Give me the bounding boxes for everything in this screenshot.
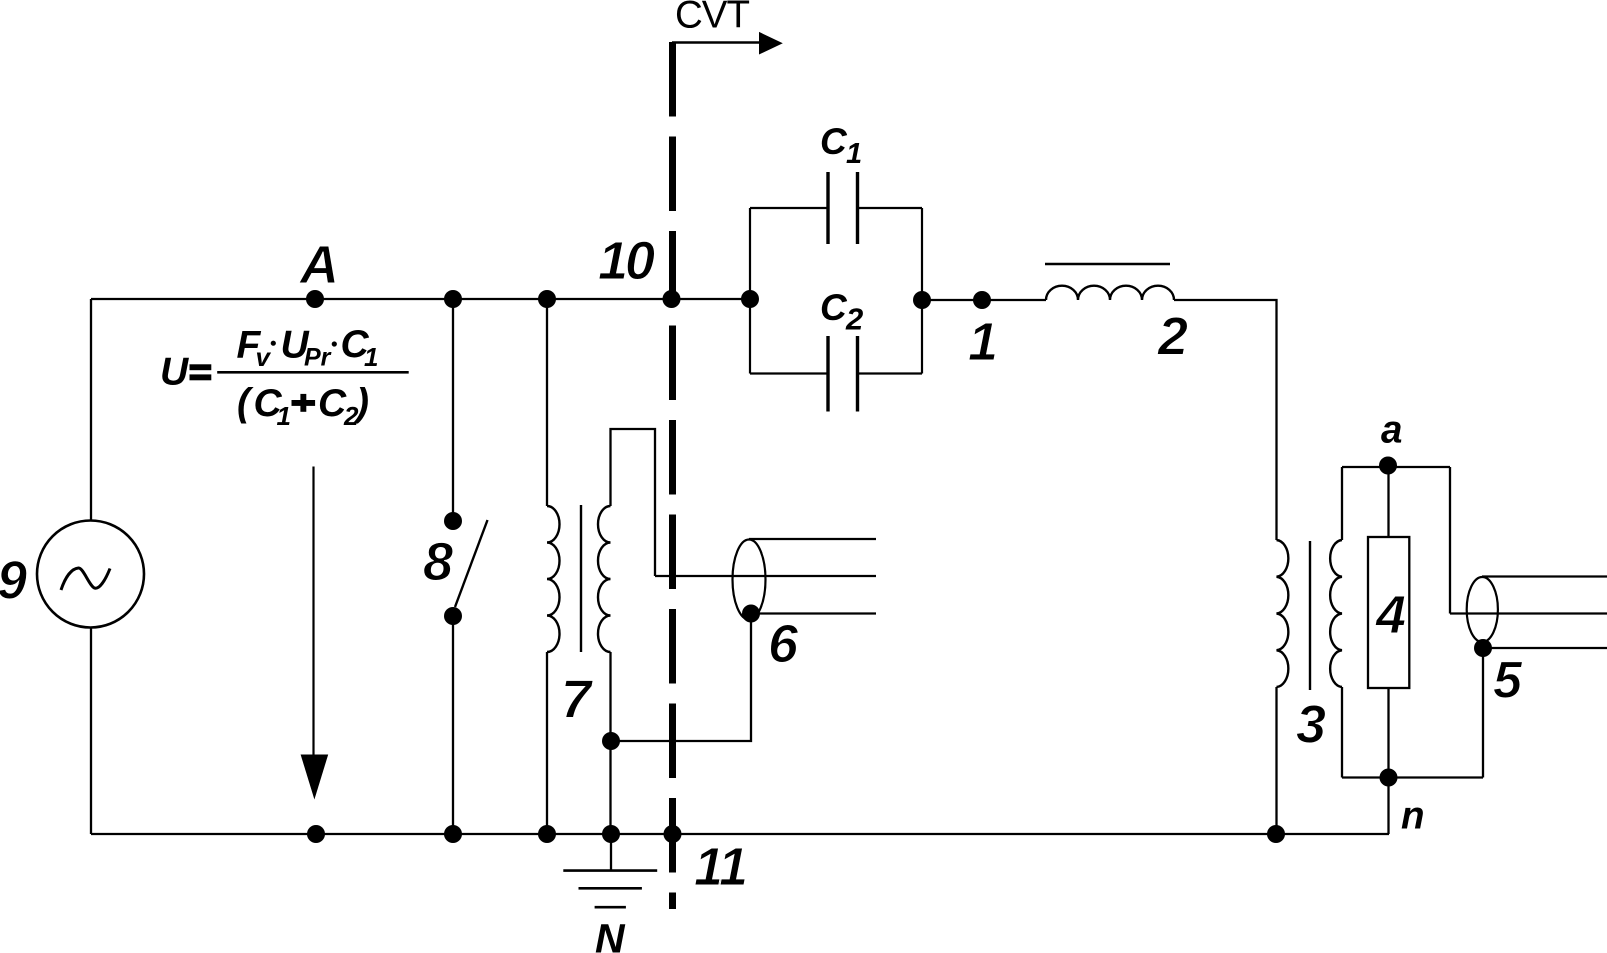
svg-text:2: 2 xyxy=(1157,307,1188,367)
inductor 2 humps xyxy=(1046,286,1174,300)
transformer 7 core xyxy=(580,505,582,652)
transformer 3 primary winding xyxy=(1277,540,1289,687)
node capbox right dot xyxy=(913,291,931,309)
bottom bus dot switch xyxy=(444,825,462,843)
svg-text:C: C xyxy=(318,382,347,425)
wire transformer7 secondary top link xyxy=(611,429,656,576)
transformer 7 primary winding xyxy=(547,506,560,652)
svg-text:4: 4 xyxy=(1375,585,1406,645)
voltage arrow below formula xyxy=(312,467,314,758)
capacitor C1 plates xyxy=(828,172,858,244)
wire node n drop to bottom bus xyxy=(1387,778,1389,835)
svg-text:C: C xyxy=(820,287,848,328)
svg-text:CVT: CVT xyxy=(675,0,749,37)
wire ground stem xyxy=(610,834,612,871)
wire cable5 bottom conductor xyxy=(1483,647,1607,649)
formula fraction bar xyxy=(217,371,409,374)
wire cable5 middle conductor xyxy=(1450,612,1607,614)
wire transformer7 secondary bottom to ground junction xyxy=(609,652,611,834)
wire left drop from bus to source xyxy=(90,299,92,521)
svg-text:C: C xyxy=(820,121,848,162)
node 1 dot xyxy=(973,291,991,309)
svg-text:Pr: Pr xyxy=(304,344,332,372)
switch 8 lower contact dot xyxy=(444,607,462,625)
wire transformer3 secondary bottom xyxy=(1341,687,1343,778)
wire top bus from source to capacitor box xyxy=(91,298,750,300)
source 9 sine symbol xyxy=(61,568,110,590)
node 10 dot xyxy=(663,290,681,308)
wire loop right vertical xyxy=(1449,467,1451,614)
source 9 circle xyxy=(37,521,144,628)
svg-text:1: 1 xyxy=(364,342,378,372)
node capbox left dot xyxy=(741,290,759,308)
wire from source bottom to bottom bus xyxy=(90,628,92,835)
svg-text:n: n xyxy=(1401,795,1425,838)
capacitor C2 plates xyxy=(828,336,858,412)
wire cable6 top conductor xyxy=(749,538,876,540)
inductor 2 bar xyxy=(1045,263,1170,266)
node A dot xyxy=(306,290,324,308)
wire cable6 bottom conductor xyxy=(751,612,876,614)
CVT arrow head xyxy=(759,32,783,55)
ground bar 1 xyxy=(563,869,657,872)
wire inductor2 to transformer3 xyxy=(1174,300,1277,540)
svg-text:8: 8 xyxy=(423,532,453,592)
svg-text:2: 2 xyxy=(845,302,863,337)
node 11 dot xyxy=(664,825,682,843)
bottom bus dot transformer7 primary xyxy=(538,825,556,843)
svg-text:11: 11 xyxy=(694,837,746,897)
wire loop top edge a xyxy=(1342,466,1450,468)
svg-text:1: 1 xyxy=(277,401,291,431)
svg-text:3: 3 xyxy=(1296,695,1326,755)
svg-text:N: N xyxy=(595,916,626,953)
transformer 7 secondary winding xyxy=(598,506,611,652)
node n dot xyxy=(1380,769,1398,787)
svg-text:5: 5 xyxy=(1493,652,1523,710)
capacitor box edges xyxy=(750,208,922,374)
node transformer7 junction dot xyxy=(538,290,556,308)
wire transformer7 primary to bottom bus xyxy=(546,652,548,834)
svg-text:6: 6 xyxy=(768,614,799,674)
wire transformer3 secondary top xyxy=(1341,467,1343,540)
ground bar 3 xyxy=(595,906,626,909)
wire switch lower drop xyxy=(452,616,454,834)
node a dot xyxy=(1379,457,1397,475)
node switch-top junction dot xyxy=(444,290,462,308)
wire node6 drop to junction xyxy=(611,614,751,742)
svg-text:A: A xyxy=(298,235,339,295)
CVT boundary dashed line xyxy=(669,42,676,909)
transformer 3 secondary winding xyxy=(1330,540,1342,687)
node 6 dot xyxy=(742,605,760,623)
wire bottom bus xyxy=(91,833,1389,835)
switch 8 upper contact dot xyxy=(444,512,462,530)
wire transformer3 primary to bottom bus xyxy=(1275,687,1277,834)
CVT arrow line xyxy=(672,41,760,44)
wire capacitor stub to inductor xyxy=(922,299,1046,301)
wire resistor4 bottom link xyxy=(1387,688,1389,778)
bottom bus dot transformer3 primary xyxy=(1267,825,1285,843)
wire switch upper drop xyxy=(452,299,454,521)
svg-text:a: a xyxy=(1381,409,1402,452)
ground bar 2 xyxy=(579,887,642,890)
wire cable5 top conductor xyxy=(1482,575,1607,577)
svg-text:7: 7 xyxy=(561,670,594,730)
switch 8 blade xyxy=(455,520,488,607)
svg-text:1: 1 xyxy=(846,138,862,170)
resistor 4 rectangle xyxy=(1368,537,1409,688)
wire resistor4 top link xyxy=(1387,467,1389,537)
svg-text:v: v xyxy=(256,342,272,372)
junction dot secondary-7 xyxy=(602,732,620,750)
connector 5 ellipse xyxy=(1467,577,1498,642)
wire cable6 middle conductor xyxy=(655,575,876,577)
svg-text:10: 10 xyxy=(598,231,655,291)
svg-text:(: ( xyxy=(237,382,254,425)
svg-text:9: 9 xyxy=(0,551,27,611)
wire loop bottom edge n xyxy=(1342,776,1483,778)
connector 6 ellipse xyxy=(733,540,766,620)
transformer 3 core xyxy=(1309,541,1311,690)
bottom bus dot ground xyxy=(602,825,620,843)
svg-text:U: U xyxy=(160,351,189,394)
node 5 dot xyxy=(1474,639,1492,657)
svg-text:1: 1 xyxy=(968,312,998,372)
wire transformer7 primary drop xyxy=(546,299,548,506)
bottom bus dot below A xyxy=(307,825,325,843)
wire node5 drop xyxy=(1482,648,1484,778)
